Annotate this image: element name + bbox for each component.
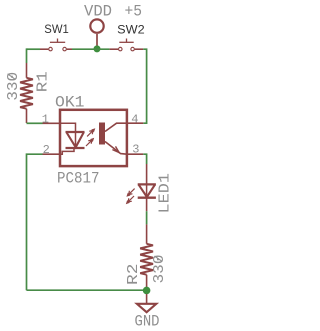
label R2 value 330 bbox=[151, 255, 168, 284]
wire: SW2 to right rail down to OK1 pin 4 bbox=[143, 49, 146, 123]
wire: top rail between SW1 and SW2 bbox=[72, 48, 110, 50]
OK1 pin 1 lead bbox=[43, 122, 61, 124]
svg-text:PC817: PC817 bbox=[57, 169, 100, 187]
OK1 pin 2 lead bbox=[43, 153, 61, 155]
wire: left rail from top corner down to R1 bbox=[26, 48, 28, 63]
label VDD +5 bbox=[84, 2, 142, 20]
ground GND bbox=[137, 294, 156, 312]
wire: top rail, left segment to SW1 bbox=[27, 48, 41, 50]
OK1 body box bbox=[60, 110, 127, 166]
OK1 internal LED cathode routing bbox=[60, 148, 74, 154]
OK1 phototransistor emitter bbox=[105, 142, 127, 155]
LED1 light arrow 1 bbox=[126, 189, 134, 197]
OK1 internal LED anode routing bbox=[60, 123, 76, 132]
svg-text:3: 3 bbox=[132, 143, 139, 157]
resistor R2 bbox=[140, 244, 153, 288]
OK1 light arrow 1 bbox=[87, 128, 95, 136]
svg-text:R2: R2 bbox=[125, 264, 142, 286]
svg-text:LED1: LED1 bbox=[157, 173, 174, 214]
switch SW2 bbox=[110, 39, 144, 51]
OK1 emitter arrowhead bbox=[112, 146, 119, 152]
svg-text:4: 4 bbox=[131, 113, 138, 127]
OK1 phototransistor collector bbox=[105, 123, 127, 131]
wire: LED1 to R2 bbox=[146, 211, 148, 224]
OK1 light arrow 2 bbox=[86, 138, 94, 146]
wire: R2 top lead upper part bbox=[146, 224, 148, 243]
svg-text:SW2: SW2 bbox=[117, 24, 145, 36]
svg-text:VDD: VDD bbox=[84, 2, 112, 20]
svg-text:330: 330 bbox=[5, 72, 22, 101]
wire: OK1 pin 3 corner down to LED1 bbox=[143, 154, 146, 164]
OK1 pin 3 lead bbox=[127, 153, 143, 155]
switch SW1 bbox=[40, 39, 72, 51]
wire: OK1 pin 2 to left rail bbox=[27, 154, 43, 290]
power flag VDD bbox=[90, 19, 103, 48]
svg-text:GND: GND bbox=[135, 312, 160, 330]
OK1 internal LED bbox=[66, 132, 85, 148]
svg-text:1: 1 bbox=[42, 113, 49, 127]
junction at GND node bbox=[143, 287, 151, 295]
resistor R1 bbox=[20, 63, 33, 123]
svg-text:+5: +5 bbox=[125, 2, 143, 20]
svg-text:R1: R1 bbox=[34, 71, 51, 92]
wire: R1 bottom to OK1 pin 1 bbox=[27, 122, 43, 124]
wire: bottom rail bbox=[27, 289, 147, 291]
OK1 phototransistor base bar bbox=[99, 123, 105, 145]
svg-text:SW1: SW1 bbox=[44, 24, 69, 36]
label R1 value 330 bbox=[5, 72, 22, 101]
optocoupler OK1 bbox=[43, 110, 144, 166]
junction at VDD tap bbox=[94, 45, 101, 52]
LED1 light arrow 2 bbox=[126, 196, 134, 204]
LED LED1 bbox=[126, 164, 156, 211]
svg-text:2: 2 bbox=[43, 143, 50, 157]
OK1 pin 4 lead bbox=[127, 122, 143, 124]
